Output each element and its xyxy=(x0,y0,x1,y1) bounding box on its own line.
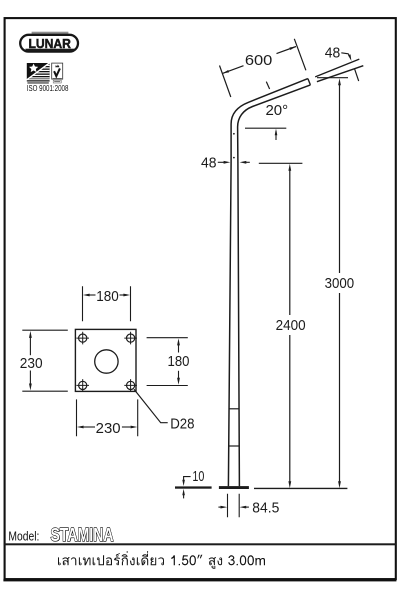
dimension 48 top tick xyxy=(355,69,359,81)
svg-text:230: 230 xyxy=(96,420,121,437)
84.5 extension lines under plate xyxy=(228,494,240,517)
pole inner (right) edge with bend xyxy=(238,85,311,486)
dimension 48 shaft left arrow xyxy=(218,161,224,163)
pole joint line 1 xyxy=(229,408,239,410)
svg-text:180: 180 xyxy=(168,353,190,370)
svg-text:2400: 2400 xyxy=(276,317,306,334)
angle 20 arrow xyxy=(275,131,277,140)
pole outer (left) edge with bend xyxy=(228,79,308,487)
svg-text:D28: D28 xyxy=(170,416,194,433)
angle 20 reference line xyxy=(245,127,286,129)
badge check (cert mark 2) xyxy=(52,63,63,83)
plate dim 230 left extension lines xyxy=(22,330,68,391)
plate dim 230 bottom extension lines xyxy=(77,399,138,436)
svg-text:LUNAR: LUNAR xyxy=(28,36,71,51)
dimension 600 line xyxy=(223,47,297,74)
svg-text:180: 180 xyxy=(96,288,119,305)
bolt hole BL xyxy=(76,379,89,392)
dimension 2400 vertical line xyxy=(289,170,291,482)
bolt hole TR xyxy=(124,332,137,345)
plate dim 180 top extension lines xyxy=(83,286,131,321)
dimension 84.5 arrows xyxy=(218,506,221,508)
extension line top of 3000 xyxy=(317,77,348,79)
base plate square (plan view) xyxy=(75,329,136,391)
arm tick mark xyxy=(266,82,269,89)
tip piece lower line xyxy=(317,66,363,82)
bottom border thick line xyxy=(3,579,396,582)
extension line top of 2400 xyxy=(259,162,303,164)
center hole circle xyxy=(95,350,118,373)
dimension 3000 vertical line xyxy=(339,85,341,483)
tip piece upper line xyxy=(315,59,359,77)
badge flag (cert mark 1) xyxy=(27,63,50,84)
plate dim 180 right arrows xyxy=(178,345,180,353)
svg-text:600: 600 xyxy=(245,52,273,69)
dimension 48 top (tip) leader xyxy=(341,53,349,57)
dimension 48 shaft right arrow xyxy=(246,161,250,163)
svg-text:STAMINA: STAMINA xyxy=(51,524,114,545)
plate dim 230 bottom arrows xyxy=(84,426,95,428)
Thai title text xyxy=(58,551,265,569)
svg-text:230: 230 xyxy=(20,355,43,372)
dimension 600 extension lines xyxy=(220,39,306,97)
svg-text:84.5: 84.5 xyxy=(252,499,279,516)
svg-text:3000: 3000 xyxy=(325,275,355,292)
plate dim 230 left arrows xyxy=(29,338,31,356)
svg-text:20°: 20° xyxy=(265,102,288,119)
bolt hole BR xyxy=(124,379,137,392)
svg-text:Model:: Model: xyxy=(8,529,39,544)
dimension 10 bracket and arrows xyxy=(184,477,191,481)
base plate bar (side view) xyxy=(219,486,249,489)
pole joint line 2 xyxy=(229,445,240,447)
svg-text:48: 48 xyxy=(201,154,217,171)
logo LUNAR bottom bar xyxy=(26,49,75,51)
ground line left bar xyxy=(175,486,212,488)
ground line right xyxy=(254,487,347,489)
svg-text:10: 10 xyxy=(192,468,204,485)
D28 leader line xyxy=(134,389,168,423)
pole centerline dots xyxy=(233,133,235,135)
bolt hole TL xyxy=(76,332,89,345)
title block separator line xyxy=(4,543,397,545)
svg-text:48: 48 xyxy=(325,45,341,62)
arm end cap xyxy=(308,79,311,85)
svg-text:ISO 9001:2008: ISO 9001:2008 xyxy=(27,84,69,93)
plate dim 180 right extension lines xyxy=(147,338,188,386)
logo LUNAR stadium ring xyxy=(20,35,78,52)
plate dim 180 top arrows xyxy=(89,294,95,296)
logo LUNAR top bar xyxy=(32,32,69,34)
